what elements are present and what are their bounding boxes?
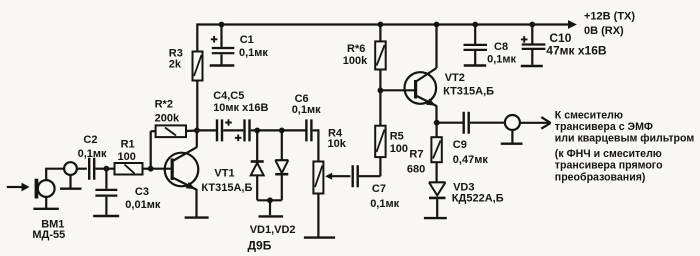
svg-text:R*6: R*6 <box>347 43 365 55</box>
svg-text:КД522А,Б: КД522А,Б <box>452 193 504 205</box>
svg-text:VD3: VD3 <box>453 181 474 193</box>
svg-text:0,1мк: 0,1мк <box>370 198 399 210</box>
svg-text:КТ315А,Б: КТ315А,Б <box>201 182 252 194</box>
svg-text:Д9Б: Д9Б <box>248 239 272 253</box>
svg-text:КТ315А,Б: КТ315А,Б <box>443 85 494 97</box>
svg-text:С2: С2 <box>83 134 97 146</box>
svg-text:0,1мк: 0,1мк <box>292 104 321 116</box>
svg-text:0,47мк: 0,47мк <box>453 154 489 166</box>
svg-text:трансивера прямого: трансивера прямого <box>555 160 663 172</box>
svg-text:VT2: VT2 <box>445 72 465 84</box>
svg-text:0,01мк: 0,01мк <box>125 199 161 211</box>
svg-text:трансивера с ЭМФ: трансивера с ЭМФ <box>555 121 653 133</box>
svg-text:R7: R7 <box>409 149 423 161</box>
svg-text:100: 100 <box>390 143 408 155</box>
svg-text:10k: 10k <box>328 138 347 150</box>
svg-text:10мк х16В: 10мк х16В <box>213 102 268 114</box>
svg-text:МД-55: МД-55 <box>32 229 65 241</box>
svg-text:100: 100 <box>118 151 136 163</box>
svg-text:R5: R5 <box>390 131 404 143</box>
svg-text:200k: 200k <box>155 112 180 124</box>
svg-text:2k: 2k <box>169 59 182 71</box>
svg-text:+12В (ТХ): +12В (ТХ) <box>584 11 635 23</box>
svg-text:0,1мк: 0,1мк <box>239 47 268 59</box>
svg-text:преобразования): преобразования) <box>555 171 646 183</box>
svg-text:(к ФНЧ и смесителю: (к ФНЧ и смесителю <box>555 148 662 160</box>
svg-text:R1: R1 <box>121 139 135 151</box>
svg-text:С4,С5: С4,С5 <box>213 90 244 102</box>
svg-text:0,1мк: 0,1мк <box>487 54 516 66</box>
svg-text:К смесителю: К смесителю <box>555 109 623 121</box>
svg-text:R*2: R*2 <box>155 99 173 111</box>
svg-text:С1: С1 <box>240 34 254 46</box>
svg-text:С7: С7 <box>372 183 386 195</box>
svg-text:С9: С9 <box>453 139 467 151</box>
svg-text:47мк х16В: 47мк х16В <box>546 44 607 58</box>
svg-text:VD1,VD2: VD1,VD2 <box>250 224 296 236</box>
svg-text:100k: 100k <box>343 55 368 67</box>
svg-text:VT1: VT1 <box>214 168 234 180</box>
svg-text:0В (RX): 0В (RX) <box>584 25 624 37</box>
svg-text:С3: С3 <box>135 186 149 198</box>
svg-text:680: 680 <box>407 164 425 176</box>
svg-text:0,1мк: 0,1мк <box>78 148 107 160</box>
svg-text:С8: С8 <box>494 41 508 53</box>
svg-text:или кварцевым фильтром: или кварцевым фильтром <box>555 132 695 144</box>
